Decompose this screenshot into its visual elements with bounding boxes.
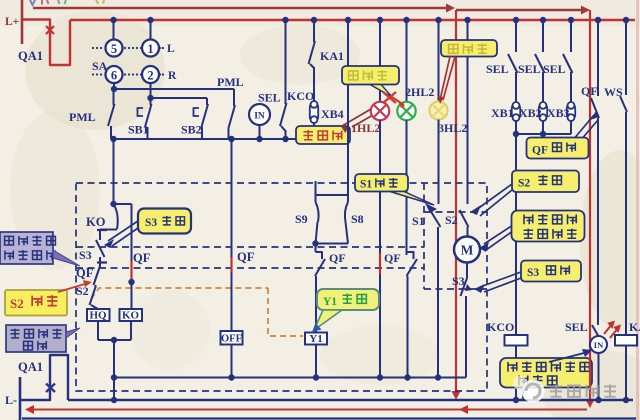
svg-text:QA1: QA1 <box>18 49 43 63</box>
fuse link XB2 <box>539 104 547 119</box>
S2 closed arrow <box>58 283 88 292</box>
junction dots on y377 <box>111 374 117 380</box>
contact SEL upper-left <box>282 17 288 23</box>
fuse link XB3 <box>567 104 575 119</box>
contact QF auxiliary left <box>99 263 101 268</box>
contact S3 below motor <box>466 263 468 279</box>
svg-text:XB1: XB1 <box>491 106 514 120</box>
svg-text:PML: PML <box>217 75 244 89</box>
wire SA6 to junction <box>113 83 115 89</box>
contact SEL 3 <box>568 17 574 23</box>
dashed divider y212 <box>424 211 487 213</box>
svg-text:WS: WS <box>604 85 623 99</box>
svg-text:1HL2: 1HL2 <box>351 121 380 135</box>
lamp 1HL2 red <box>371 102 389 120</box>
dashed divider y289 <box>424 288 487 290</box>
wire x113 into box <box>113 139 115 204</box>
red feeder over label <box>589 358 591 388</box>
svg-text:SEL: SEL <box>486 62 509 76</box>
svg-text:IN: IN <box>594 340 604 350</box>
svg-text:L: L <box>167 43 175 55</box>
wire red vertical feeder x590 <box>589 10 591 402</box>
svg-text:QF: QF <box>329 251 346 265</box>
contact SB2 pushbutton <box>206 98 208 105</box>
red state overlay on KO branch <box>130 261 132 279</box>
svg-text:S3: S3 <box>527 267 539 279</box>
svg-text:SEL: SEL <box>518 62 541 76</box>
callout breaker closed indicator lit <box>500 358 592 388</box>
svg-text:S1: S1 <box>360 179 372 191</box>
svg-text:S2: S2 <box>445 213 458 227</box>
dashed divider x424 <box>423 183 425 289</box>
callout red lamp on <box>296 126 350 144</box>
contact S2 left <box>95 285 97 288</box>
right edge pink strip <box>636 0 639 420</box>
S3 connected pointer <box>480 272 521 287</box>
svg-text:HQ: HQ <box>89 310 107 322</box>
wire lamp3 down to S1 <box>438 120 440 205</box>
svg-text:Y1: Y1 <box>323 296 337 308</box>
breaker indicator pointer <box>549 352 588 362</box>
svg-text:QF: QF <box>237 250 255 264</box>
svg-text:PML: PML <box>69 110 96 124</box>
contact KA1 <box>311 17 317 23</box>
svg-text:3HL2: 3HL2 <box>438 121 467 135</box>
callout Y1 energized <box>317 289 379 310</box>
contact group S9 S8 parallel <box>316 194 349 196</box>
indicator IN upper <box>249 104 270 125</box>
bus L+ horizontal y20 <box>70 19 635 21</box>
wire fuse collector y134 <box>516 133 571 135</box>
svg-text:SEL: SEL <box>258 91 281 105</box>
wire lamp1 down <box>379 120 381 377</box>
contact PML right <box>233 89 235 106</box>
contact PML left <box>113 89 115 105</box>
coil KCO <box>505 335 528 346</box>
disconnector QA1 lower <box>20 355 68 400</box>
callout S3 connected <box>521 261 581 282</box>
svg-text:S3: S3 <box>145 217 157 229</box>
storage motor pointer <box>484 226 512 244</box>
fuse link XB4 <box>310 103 318 121</box>
svg-text:KO: KO <box>122 310 140 322</box>
wire y89 to PML right <box>114 88 234 90</box>
cropped title remnants top <box>30 0 104 5</box>
svg-text:KA1: KA1 <box>320 49 344 63</box>
contact SEL lower right <box>592 325 600 338</box>
svg-text:S3: S3 <box>79 248 92 262</box>
coil KO branch <box>114 203 132 205</box>
svg-text:SB2: SB2 <box>181 123 202 137</box>
wire x516 down to KCO coil <box>515 134 517 335</box>
contact SEL 2 <box>540 17 546 23</box>
wire to lamp 1HL2 <box>377 17 383 23</box>
svg-text:M: M <box>461 243 474 258</box>
terminal L- <box>19 377 22 420</box>
yellow lamp annotation lines <box>440 57 450 101</box>
svg-text:1: 1 <box>147 42 153 56</box>
svg-text:QF: QF <box>133 251 151 265</box>
red cross green lamp wire <box>383 92 396 103</box>
svg-text:KA1: KA1 <box>629 320 640 334</box>
svg-text:OFF: OFF <box>221 334 242 345</box>
red state overlay x231 <box>230 257 232 272</box>
annotation lines lamp 1HL2 to callout <box>342 109 371 126</box>
svg-text:QA1: QA1 <box>18 360 43 374</box>
svg-text:IN: IN <box>254 112 265 122</box>
svg-text:SA: SA <box>92 59 108 73</box>
svg-text:5: 5 <box>111 42 117 56</box>
selector SA contact 1 <box>150 20 152 40</box>
wire to lamp 3HL2 <box>435 17 441 23</box>
bus L- horizontal y400 <box>68 399 633 401</box>
svg-text:SEL: SEL <box>543 62 566 76</box>
coil Y1 closing solenoid <box>305 333 327 345</box>
disconnector QA1 upper <box>22 20 70 66</box>
coil HQ closing <box>87 309 110 321</box>
svg-text:KCO: KCO <box>487 320 514 334</box>
callout QF connected <box>527 138 589 159</box>
coil KA1 right <box>615 335 637 346</box>
svg-text:2HL2: 2HL2 <box>405 85 434 99</box>
svg-text:KCO: KCO <box>287 89 314 103</box>
svg-text:6: 6 <box>111 68 117 82</box>
contact WS <box>623 17 629 23</box>
wire row y139 <box>111 138 296 140</box>
indicator IN lower <box>590 336 607 353</box>
S2 connected pointer <box>476 184 512 210</box>
callout S2 connected <box>512 171 579 193</box>
contact S1 open <box>430 210 441 227</box>
motor M storage <box>454 237 480 263</box>
svg-text:QF: QF <box>581 84 598 98</box>
svg-text:S8: S8 <box>351 212 364 226</box>
closing coil pointer <box>66 328 80 338</box>
contact S2 travel-switch <box>464 17 470 23</box>
svg-text:SB1: SB1 <box>128 123 149 137</box>
watermark text zhongbo keji <box>550 384 616 397</box>
selector SA contact 6 <box>106 66 123 83</box>
svg-text:Y1: Y1 <box>309 333 322 345</box>
contact QF auxiliary right <box>595 17 601 23</box>
svg-text:S2: S2 <box>10 296 24 311</box>
fuse link XB1 <box>512 104 520 119</box>
label box closing coil deenergized <box>6 325 66 352</box>
svg-text:L+: L+ <box>5 16 19 28</box>
callout yellow lamp off <box>441 40 497 57</box>
svg-text:XB3: XB3 <box>547 106 570 120</box>
contact SB1 pushbutton <box>150 83 152 89</box>
coil OFF <box>221 331 243 345</box>
callout S3 closed <box>138 209 191 234</box>
breaker aux contact QF on Y1 line <box>315 244 317 253</box>
svg-text:QF: QF <box>532 145 548 157</box>
bottom border line <box>22 417 636 419</box>
svg-text:S9: S9 <box>295 212 308 226</box>
svg-text:SEL: SEL <box>565 320 588 334</box>
callout green lamp off <box>342 66 399 85</box>
wire lamp2 down to QF contact <box>406 120 408 255</box>
wire y98 SB1 to SB2 <box>151 97 208 99</box>
lamp 3HL2 yellow <box>430 102 448 120</box>
light rays red <box>604 322 620 338</box>
wire L+ top rail 2 with arrow <box>456 9 583 11</box>
svg-text:R: R <box>168 70 177 82</box>
wire red vertical feeder x456 <box>455 10 457 394</box>
wire return bus y377 <box>114 377 466 379</box>
dashed divider y247 <box>76 246 424 248</box>
dashed enclosure main <box>76 183 487 391</box>
svg-text:QF: QF <box>76 266 94 280</box>
dashed divider y268 <box>76 267 424 269</box>
terminal L+ <box>21 0 24 44</box>
selector SA contact 2 <box>142 66 159 83</box>
watermark logo circle <box>522 380 545 403</box>
label box switch auxiliary <box>0 232 53 264</box>
svg-text:S3: S3 <box>452 274 465 288</box>
QF connected pointer <box>575 115 594 138</box>
wire to lamp 2HL2 <box>403 17 409 23</box>
svg-text:S1: S1 <box>412 214 425 228</box>
svg-text:S2: S2 <box>518 178 530 190</box>
callout S1 open <box>355 174 408 192</box>
wire x231 down <box>231 139 233 331</box>
svg-text:QF: QF <box>384 251 401 265</box>
callout storage motor runs <box>512 211 585 242</box>
wire stub above S9S8 <box>315 181 317 195</box>
wire L+ top rail 1 with arrow <box>33 7 449 9</box>
switch auxiliary arrow <box>53 250 80 266</box>
red state overlay on QF wire x380 <box>379 253 381 274</box>
wire red return bottom with arrows <box>27 409 587 411</box>
svg-text:KO: KO <box>86 215 106 229</box>
contact KO curved <box>114 204 118 229</box>
orange dashed trip path to Y1 <box>91 288 268 299</box>
svg-text:XB4: XB4 <box>321 107 344 121</box>
callout S2 closed red <box>5 290 67 316</box>
contact SEL 1 <box>513 17 519 23</box>
wire coils to return <box>97 321 99 340</box>
selector SA dotted couplers <box>92 47 94 49</box>
svg-text:XB2: XB2 <box>519 106 542 120</box>
selector SA contact 5 <box>113 20 115 40</box>
svg-text:L-: L- <box>5 393 17 407</box>
breaker aux contact QF on lamp2 line <box>407 252 414 259</box>
lamp 2HL2 green <box>397 102 415 120</box>
auxiliary switch S3 left <box>100 229 117 231</box>
svg-text:2: 2 <box>147 68 153 82</box>
callout S3 closed pointer <box>108 221 138 241</box>
